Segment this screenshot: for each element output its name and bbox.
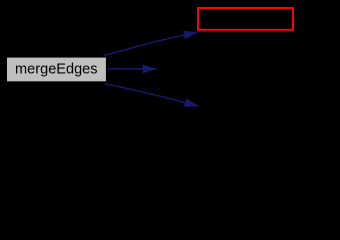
node mergeEdges (current function, grey) — [6, 57, 106, 82]
svg-text:mergeEdges: mergeEdges — [15, 62, 97, 78]
wire: edge mergeEdges -> middle hidden node — [107, 68, 157, 70]
wire: edge mergeEdges -> red node — [104, 32, 198, 55]
node: highlighted (red outline) target function — [198, 8, 293, 30]
wire: edge mergeEdges -> bottom hidden node — [105, 84, 199, 107]
